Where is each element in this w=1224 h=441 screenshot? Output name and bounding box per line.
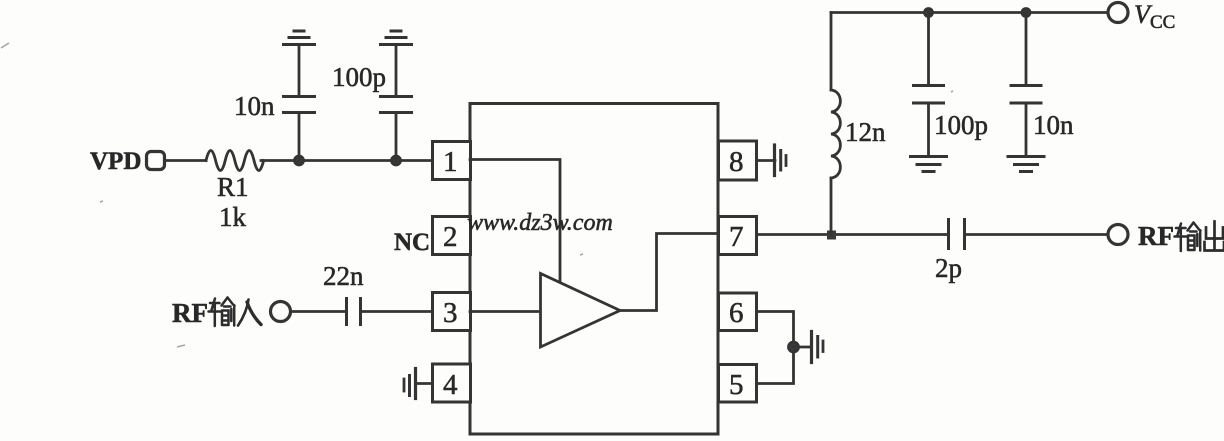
- capacitor 100p (right): [914, 86, 944, 104]
- resistor R1: [206, 151, 264, 171]
- wire 10n to ground: [1025, 103, 1028, 156]
- terminal VCC: [1108, 3, 1128, 23]
- pin 4: [433, 364, 471, 402]
- node E (junction rail/100p): [925, 9, 933, 17]
- wire pin3 internal: [470, 310, 540, 313]
- svg-text:www.dz3w.com: www.dz3w.com: [467, 210, 613, 236]
- svg-text:10n: 10n: [234, 91, 275, 121]
- svg-text:NC: NC: [394, 229, 430, 256]
- svg-text:6: 6: [729, 297, 744, 329]
- svg-text:100p: 100p: [934, 110, 988, 140]
- pin 5: [719, 365, 757, 403]
- pin 7: [719, 217, 757, 255]
- wire pin1 internal: [470, 160, 560, 283]
- wire R1 to pin1: [261, 159, 433, 162]
- wire triangle to pin7: [620, 234, 718, 311]
- wire VPD to R1: [165, 159, 206, 162]
- svg-text:R1: R1: [217, 172, 249, 202]
- capacitor 2p: [949, 220, 965, 249]
- svg-text:8: 8: [729, 146, 744, 178]
- pin 2: [433, 217, 471, 255]
- svg-text:RF: RF: [1138, 221, 1174, 251]
- ground (pins 5/6): [812, 332, 824, 363]
- capacitor 100p (left): [381, 97, 412, 113]
- svg-text:3: 3: [443, 297, 458, 329]
- wire pin6 down: [757, 312, 794, 384]
- hanzi 输 (RF input label): [209, 298, 235, 327]
- wire up to 100p: [395, 114, 398, 161]
- svg-text:22n: 22n: [323, 261, 364, 291]
- IC U1 body: [470, 104, 718, 435]
- svg-text:1: 1: [443, 146, 458, 178]
- hanzi 出 (RF output label): [1205, 222, 1224, 251]
- node C (junction pin7 / coil): [827, 231, 836, 240]
- terminal RF output: [1108, 225, 1128, 245]
- terminal RF input: [271, 302, 291, 322]
- wire coil to pin7 node: [830, 178, 833, 235]
- wire to ground (pins 5/6): [794, 346, 811, 349]
- terminal VPD: [147, 152, 165, 170]
- hanzi 输 (RF output label): [1175, 223, 1201, 252]
- wire 100p to ground: [927, 103, 930, 156]
- pin 3: [433, 293, 471, 331]
- ground (pin 4): [404, 369, 433, 399]
- ground (below 100p): [911, 157, 947, 172]
- capacitor 10n (right): [1011, 86, 1041, 104]
- hanzi 入 (RF input label): [238, 300, 261, 326]
- node B (junction at 100p): [392, 156, 401, 165]
- svg-text:10n: 10n: [1033, 110, 1074, 140]
- capacitor 22n: [347, 299, 361, 325]
- svg-text:12n: 12n: [845, 117, 886, 147]
- wire down to 100p (right): [927, 13, 930, 86]
- svg-text:2p: 2p: [935, 253, 962, 283]
- pin 1: [433, 142, 471, 180]
- ground (below 10n): [1008, 157, 1044, 172]
- svg-text:5: 5: [729, 369, 744, 401]
- ground (pin 8): [775, 145, 787, 176]
- pin 6: [719, 293, 757, 331]
- wire down to 10n (right): [1025, 13, 1028, 86]
- svg-text:2: 2: [443, 221, 458, 253]
- node D (junction pins 5/6 ground): [789, 342, 799, 352]
- pin 8: [719, 141, 757, 180]
- wire RFin to 22n: [291, 310, 345, 313]
- svg-text:VPD: VPD: [90, 148, 141, 175]
- node F (junction rail/10n): [1022, 9, 1030, 17]
- ground (top, above 10n): [284, 31, 315, 45]
- wire VCC rail: [831, 11, 1107, 14]
- wire pin7 to output terminal: [757, 233, 949, 236]
- svg-text:7: 7: [729, 221, 744, 253]
- svg-text:100p: 100p: [332, 62, 386, 92]
- ground (top, above 100p): [381, 31, 412, 45]
- svg-text:4: 4: [443, 369, 458, 401]
- svg-text:1k: 1k: [219, 202, 247, 232]
- inductor 12n: [831, 90, 840, 178]
- wire rail down to coil: [830, 13, 833, 91]
- svg-text:RF: RF: [172, 298, 208, 328]
- wire pin8 to ground: [757, 159, 776, 162]
- wire 22n to pin3: [362, 310, 433, 313]
- node A (junction at 10n): [295, 156, 304, 165]
- wire 10n to ground: [298, 45, 301, 97]
- wire 100p to ground: [395, 45, 398, 97]
- capacitor 10n (left): [284, 97, 315, 113]
- op-amp U1 triangle: [541, 274, 621, 348]
- wire up to 10n: [298, 114, 301, 161]
- svg-text:CC: CC: [1150, 12, 1175, 33]
